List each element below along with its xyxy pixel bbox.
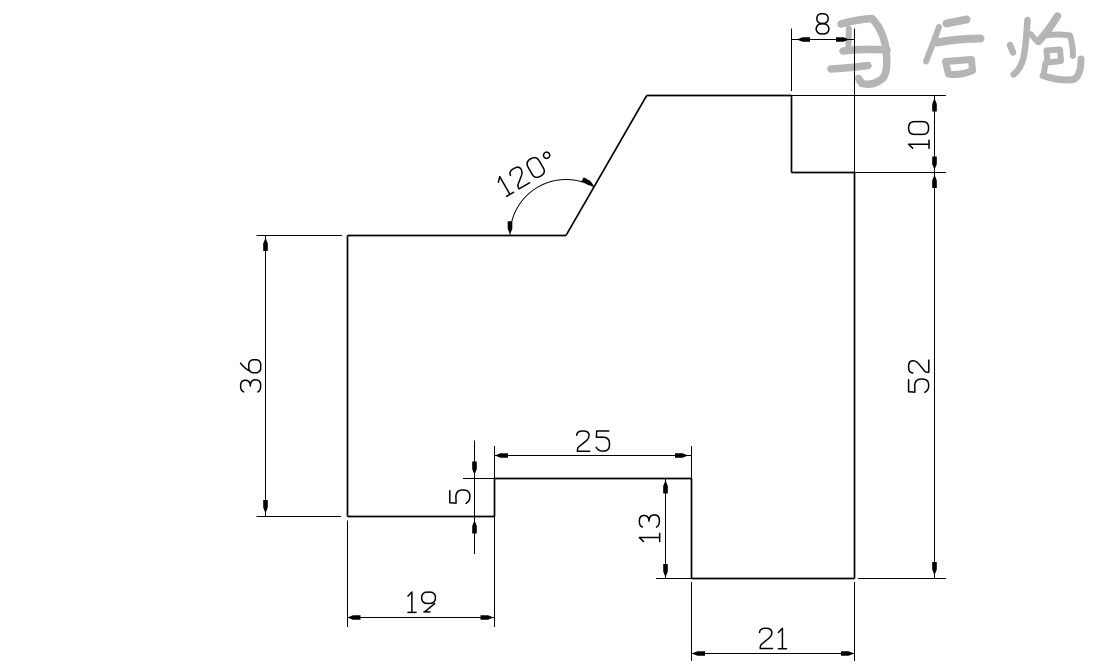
dimension 13 extension line bottom (656, 578, 692, 580)
watermark character MA (831, 19, 887, 85)
dimension 19 text (408, 592, 435, 612)
outline segment: notch shelf (495, 478, 692, 480)
dimension 21 arrow left (693, 651, 706, 656)
dimension 120deg arrow right (582, 177, 594, 186)
dimension 10 text (909, 122, 929, 149)
dimension 21 arrow right (841, 651, 854, 656)
dimension 8 arrow right (836, 37, 849, 42)
outline segment: lower-left shelf edge (348, 516, 495, 518)
outline segment: notch right side (691, 479, 693, 579)
watermark character PAO (1010, 16, 1081, 80)
watermark character HOU (926, 20, 981, 75)
dimension 13 arrow down (663, 564, 668, 577)
dimension 8 extension line left (791, 29, 793, 92)
dimension 5 arrow down (472, 462, 477, 475)
dimension 13 text (639, 515, 659, 542)
dimension 5 text (450, 490, 470, 503)
dimension 13 arrow up (663, 481, 668, 494)
dimension 19 dimension line (347, 617, 494, 619)
dimension 36 extension line bottom (257, 516, 342, 518)
outline segment: step bottom (792, 172, 855, 174)
outline segment: 120-degree chamfer slant (566, 96, 647, 236)
outline segment: top edge (647, 95, 792, 97)
dimension 52 text (909, 360, 929, 392)
dimension 120deg arc (510, 179, 594, 235)
dimension 19 arrow right (481, 615, 494, 620)
dimension 21 text (760, 628, 787, 648)
dimension 10 extension line bottom (855, 172, 947, 174)
dimension 52 arrow down (932, 562, 937, 575)
dimension 36 dimension line (265, 236, 267, 517)
dimension 21 extension line right (854, 582, 856, 661)
outline segment: step left side (791, 96, 793, 173)
dimension 5 arrow up (472, 521, 477, 534)
dimension 10 dimension line (934, 96, 936, 173)
dimension 25 extension line right (691, 446, 693, 479)
dimension 10 extension line top (792, 95, 947, 97)
dimension 21 extension line left (691, 582, 693, 661)
dimension 36 arrow down (263, 500, 268, 513)
dimension 25 extension line left (494, 446, 496, 479)
dimension 10 arrow up (932, 99, 937, 112)
dimension 36 text (241, 360, 261, 392)
dimension 36 extension line top (257, 235, 343, 237)
dimension 25 arrow right (675, 453, 688, 458)
dimension 52 arrow up (932, 176, 937, 189)
dimension 25 arrow left (496, 453, 509, 458)
outline segment: right edge (854, 173, 856, 579)
dimension 10 arrow down (932, 157, 937, 170)
outline segment: top-left shelf edge (348, 235, 567, 237)
dimension 36 arrow up (263, 239, 268, 252)
outline segment: small step (494, 479, 496, 517)
dimension 21 dimension line (691, 653, 854, 655)
dimension 8 arrow left (798, 37, 811, 42)
outline segment: bottom edge (692, 578, 855, 580)
dimension 13 dimension line (665, 479, 667, 579)
dimension 5 dimension line (474, 441, 476, 555)
dimension 19 arrow left (348, 615, 361, 620)
dimension 52 dimension line (934, 173, 936, 579)
dimension 19 extension line left (347, 521, 349, 628)
dimension 8 text (816, 14, 829, 34)
outline segment: left edge (347, 236, 349, 517)
dimension 8 extension line right (854, 29, 856, 173)
dimension 5 extension line (463, 478, 495, 480)
dimension 25 dimension line (495, 455, 692, 457)
dimension 52 extension line bottom (858, 578, 946, 580)
dimension 120deg arrow left (508, 221, 513, 234)
dimension 120deg text (496, 149, 557, 196)
dimension 25 text (577, 431, 610, 451)
dimension 8 dimension line (792, 39, 855, 41)
dimension 19 extension line right (494, 517, 496, 628)
